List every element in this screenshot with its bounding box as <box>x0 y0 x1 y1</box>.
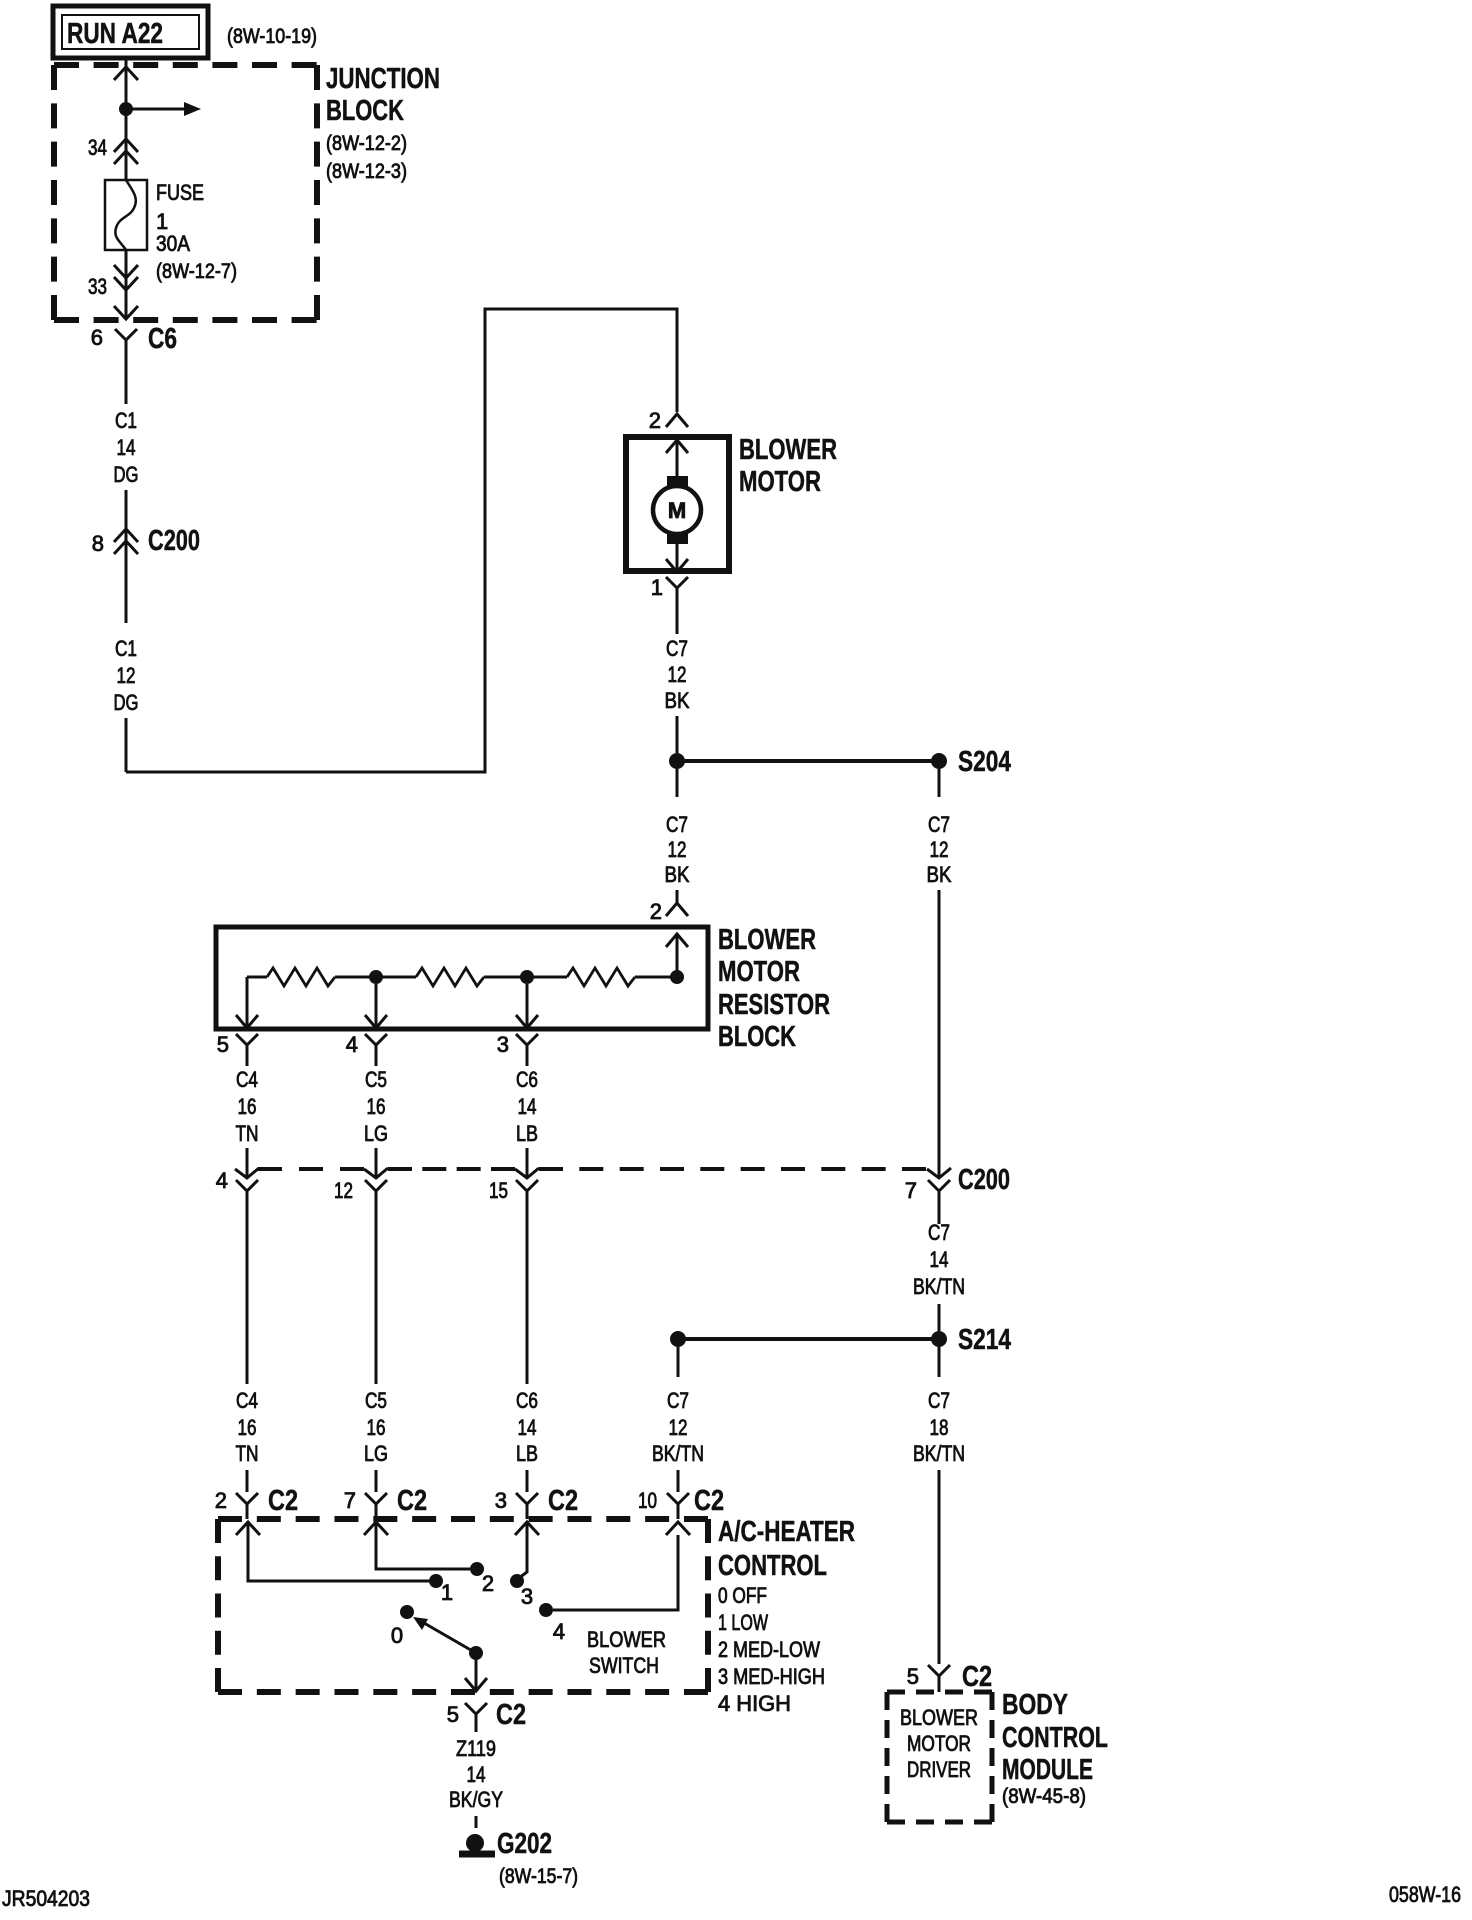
connector pin 33 <box>88 265 138 299</box>
svg-text:C7: C7 <box>667 1388 689 1413</box>
svg-text:7: 7 <box>344 1488 356 1513</box>
wire tap stubs and exit arrows <box>236 977 538 1028</box>
svg-text:4: 4 <box>553 1619 565 1644</box>
junction block dashed box <box>54 65 317 320</box>
svg-text:14: 14 <box>518 1094 537 1119</box>
wire switch position 2 from pin 7 <box>376 1522 470 1569</box>
svg-text:12: 12 <box>669 1415 688 1440</box>
wire RUN A22 feed into junction block <box>125 58 128 180</box>
svg-text:16: 16 <box>238 1094 257 1119</box>
connector C200 pin 7 <box>905 1164 1010 1203</box>
svg-text:(8W-12-2): (8W-12-2) <box>326 132 407 155</box>
svg-text:BK: BK <box>927 862 952 887</box>
wire switch position 3 from pin 3 <box>519 1522 527 1578</box>
node switch contact 4 <box>539 1603 553 1617</box>
svg-text:3 MED-HIGH: 3 MED-HIGH <box>718 1664 825 1689</box>
svg-text:18: 18 <box>930 1415 949 1440</box>
svg-text:12: 12 <box>668 662 687 687</box>
svg-text:2: 2 <box>650 899 662 924</box>
svg-text:C7: C7 <box>666 812 688 837</box>
svg-text:BK/TN: BK/TN <box>913 1274 965 1299</box>
connector C2 pin 3 <box>495 1485 578 1519</box>
wire loop to blower motor <box>126 309 677 772</box>
svg-text:BLOWER: BLOWER <box>718 924 816 956</box>
svg-text:3: 3 <box>497 1032 509 1057</box>
svg-text:DRIVER: DRIVER <box>907 1757 971 1782</box>
blower motor resistor block <box>216 927 708 1029</box>
node resistor feed <box>670 970 684 984</box>
node switch contact 2 <box>470 1562 484 1576</box>
label BLOWER MOTOR <box>739 434 837 498</box>
svg-text:JR504203: JR504203 <box>2 1886 90 1911</box>
svg-text:14: 14 <box>518 1415 537 1440</box>
svg-text:2: 2 <box>215 1488 227 1513</box>
svg-text:12: 12 <box>334 1178 353 1203</box>
connector resistor pin 4 <box>346 1032 387 1066</box>
svg-text:C2: C2 <box>548 1485 578 1517</box>
connector C2 pin 5 (BCM) <box>907 1661 992 1693</box>
svg-text:C4: C4 <box>236 1067 258 1092</box>
svg-text:C6: C6 <box>148 323 177 355</box>
svg-text:S204: S204 <box>958 746 1011 778</box>
svg-text:C6: C6 <box>516 1067 538 1092</box>
label blower motor driver <box>900 1705 978 1782</box>
connector C2 pin 7 <box>344 1485 427 1519</box>
svg-text:5: 5 <box>447 1702 459 1727</box>
wire fuse to junction block edge <box>125 250 128 318</box>
svg-text:CONTROL: CONTROL <box>1002 1722 1108 1754</box>
wire C5 16 LG lower <box>364 1388 388 1492</box>
svg-text:BLOCK: BLOCK <box>326 95 404 127</box>
svg-text:C200: C200 <box>958 1164 1010 1196</box>
svg-text:14: 14 <box>930 1247 949 1272</box>
connector blower motor pin 1 <box>651 575 688 606</box>
svg-text:3: 3 <box>495 1488 507 1513</box>
svg-text:8: 8 <box>92 531 104 556</box>
svg-text:34: 34 <box>88 135 107 160</box>
svg-text:16: 16 <box>238 1415 257 1440</box>
wire C1 12 DG <box>114 556 139 772</box>
svg-text:16: 16 <box>367 1094 386 1119</box>
connector resistor block pin 2 <box>650 899 688 924</box>
connector C2 pin 10 <box>638 1485 724 1519</box>
connector C6 pin 6 <box>91 323 177 356</box>
svg-text:DG: DG <box>114 462 139 487</box>
resistor med-high <box>567 968 635 986</box>
svg-text:LB: LB <box>516 1121 538 1146</box>
svg-text:C5: C5 <box>365 1067 387 1092</box>
svg-text:(8W-15-7): (8W-15-7) <box>499 1865 578 1888</box>
node switch contact 3 <box>510 1574 524 1588</box>
wire C4 16 TN <box>236 1067 259 1179</box>
connector C200 dashed harness line <box>258 1167 926 1171</box>
connector C200 pin 4 <box>216 1168 259 1193</box>
connector C200 pin 15 <box>489 1168 539 1203</box>
svg-text:6: 6 <box>91 325 103 350</box>
junction node <box>119 102 133 116</box>
svg-text:058W-16: 058W-16 <box>1389 1882 1461 1907</box>
svg-text:30A: 30A <box>156 231 190 256</box>
svg-text:DG: DG <box>114 690 139 715</box>
connector resistor pin 5 <box>217 1032 258 1066</box>
svg-text:C7: C7 <box>928 1220 950 1245</box>
wire C5 16 LG <box>364 1067 388 1179</box>
wire C7 12 BK (motor to S204) <box>665 606 690 753</box>
svg-text:5: 5 <box>907 1664 919 1689</box>
svg-text:16: 16 <box>367 1415 386 1440</box>
svg-text:BLOWER: BLOWER <box>739 434 837 466</box>
svg-text:SWITCH: SWITCH <box>589 1653 659 1678</box>
arrows into A/C control <box>236 1522 690 1535</box>
svg-text:7: 7 <box>905 1178 917 1203</box>
resistor med-low <box>416 968 484 986</box>
arrow out of junction block <box>114 306 138 319</box>
svg-text:(8W-10-19): (8W-10-19) <box>227 25 317 48</box>
svg-text:33: 33 <box>88 274 107 299</box>
svg-text:C7: C7 <box>928 1388 950 1413</box>
wires from C200 down to A/C control pins <box>247 1192 527 1384</box>
svg-text:JUNCTION: JUNCTION <box>326 63 440 95</box>
svg-text:C2: C2 <box>962 1661 992 1693</box>
svg-text:4 HIGH: 4 HIGH <box>718 1691 791 1716</box>
svg-text:5: 5 <box>217 1032 229 1057</box>
node resistor tap 3 <box>520 970 534 984</box>
svg-text:(8W-45-8): (8W-45-8) <box>1002 1785 1086 1808</box>
svg-text:14: 14 <box>467 1762 486 1787</box>
svg-text:C6: C6 <box>516 1388 538 1413</box>
svg-text:G202: G202 <box>497 1828 552 1860</box>
svg-text:LB: LB <box>516 1441 538 1466</box>
svg-text:0 OFF: 0 OFF <box>718 1583 767 1608</box>
label BODY CONTROL MODULE <box>1002 1689 1108 1808</box>
wire C7 12 BK (S204 to resistor block) <box>665 769 690 904</box>
wire C7 18 BK/TN (S214 to BCM) <box>913 1347 965 1664</box>
svg-text:BK/TN: BK/TN <box>913 1441 965 1466</box>
svg-text:MOTOR: MOTOR <box>907 1731 971 1756</box>
svg-text:RESISTOR: RESISTOR <box>718 989 830 1021</box>
svg-text:BLOWER: BLOWER <box>587 1627 666 1652</box>
wire Z119 14 BK/GY <box>449 1736 503 1828</box>
svg-text:C2: C2 <box>268 1485 298 1517</box>
connector C2 pin 5 (switch output) <box>447 1699 526 1732</box>
svg-text:C4: C4 <box>236 1388 258 1413</box>
ground G202 <box>459 1828 578 1888</box>
connector C200 pin 12 <box>334 1168 388 1203</box>
svg-text:15: 15 <box>489 1178 508 1203</box>
svg-text:(8W-12-7): (8W-12-7) <box>156 260 237 283</box>
svg-text:Z119: Z119 <box>456 1736 496 1761</box>
svg-text:LG: LG <box>364 1441 388 1466</box>
svg-text:2: 2 <box>482 1571 494 1596</box>
wire switch position 1 from pin 2 <box>248 1522 429 1581</box>
arrow to other circuits <box>126 102 201 116</box>
A/C-heater control dashed box <box>218 1519 708 1692</box>
wire switch position 4 to pin 10 <box>553 1535 678 1610</box>
svg-text:MOTOR: MOTOR <box>718 956 800 988</box>
svg-text:BLOWER: BLOWER <box>900 1705 978 1730</box>
junction block label <box>326 63 440 183</box>
wire wiper to pin 5 <box>475 1653 478 1690</box>
svg-text:4: 4 <box>346 1032 358 1057</box>
svg-text:14: 14 <box>117 435 136 460</box>
connector C2 pin 2 <box>215 1485 298 1519</box>
svg-text:TN: TN <box>236 1441 259 1466</box>
svg-text:2 MED-LOW: 2 MED-LOW <box>718 1637 820 1662</box>
node switch contact 1 <box>429 1574 443 1588</box>
wire C4 16 TN lower <box>236 1388 259 1492</box>
svg-text:CONTROL: CONTROL <box>718 1550 827 1582</box>
connector resistor pin 3 <box>497 1032 538 1066</box>
svg-text:C200: C200 <box>148 525 200 557</box>
feed box RUN A22 <box>53 6 208 58</box>
node resistor tap 4 <box>369 970 383 984</box>
svg-text:0: 0 <box>391 1623 403 1648</box>
svg-text:C2: C2 <box>397 1485 427 1517</box>
svg-text:S214: S214 <box>958 1324 1011 1356</box>
label BLOWER SWITCH <box>587 1627 666 1678</box>
svg-text:C5: C5 <box>365 1388 387 1413</box>
svg-text:BLOCK: BLOCK <box>718 1021 796 1053</box>
svg-text:BK/GY: BK/GY <box>449 1787 503 1812</box>
svg-text:BK: BK <box>665 862 690 887</box>
svg-text:C2: C2 <box>496 1699 526 1731</box>
wire C7 14 BK/TN (C200 to S214) <box>913 1192 965 1331</box>
svg-text:1: 1 <box>441 1580 453 1605</box>
svg-text:FUSE: FUSE <box>156 180 204 205</box>
blower motor <box>626 437 729 572</box>
connector pin 34 <box>88 135 138 164</box>
fuse 1 30A <box>105 180 237 283</box>
splice S214 <box>670 1324 1011 1356</box>
svg-text:12: 12 <box>117 663 136 688</box>
svg-text:BODY: BODY <box>1002 1689 1068 1721</box>
label BLOWER MOTOR RESISTOR BLOCK <box>718 924 830 1053</box>
svg-text:M: M <box>668 498 686 523</box>
resistor low <box>267 968 335 986</box>
wire C6 14 LB lower <box>516 1388 538 1492</box>
svg-text:12: 12 <box>930 837 949 862</box>
arrow into junction block <box>114 67 138 80</box>
svg-text:BK: BK <box>665 688 690 713</box>
svg-text:MODULE: MODULE <box>1002 1754 1093 1786</box>
splice S204 <box>669 746 1011 778</box>
svg-text:(8W-12-3): (8W-12-3) <box>326 160 407 183</box>
svg-text:C2: C2 <box>694 1485 724 1517</box>
svg-text:2: 2 <box>649 408 661 433</box>
connector C200 pin 8 <box>92 525 200 557</box>
svg-text:1: 1 <box>651 575 663 600</box>
svg-text:MOTOR: MOTOR <box>739 466 821 498</box>
label A/C-HEATER CONTROL <box>718 1516 855 1716</box>
wire C1 14 DG <box>114 356 139 527</box>
svg-text:LG: LG <box>364 1121 388 1146</box>
svg-text:RUN A22: RUN A22 <box>67 18 163 50</box>
svg-text:BK/TN: BK/TN <box>652 1441 704 1466</box>
svg-text:TN: TN <box>236 1121 259 1146</box>
svg-text:12: 12 <box>668 837 687 862</box>
svg-text:A/C-HEATER: A/C-HEATER <box>718 1516 855 1548</box>
svg-text:1 LOW: 1 LOW <box>718 1610 768 1635</box>
svg-text:10: 10 <box>638 1488 657 1513</box>
svg-text:C7: C7 <box>666 636 688 661</box>
svg-text:C7: C7 <box>928 812 950 837</box>
wire C7 12 BK (S204 to C200 pin 7) <box>927 769 952 1178</box>
wire C6 14 LB <box>516 1067 538 1179</box>
node switch contact 0 <box>400 1605 414 1619</box>
svg-text:3: 3 <box>521 1584 533 1609</box>
switch wiper arm <box>413 1617 483 1660</box>
connector blower motor pin 2 <box>649 408 688 433</box>
svg-text:C1: C1 <box>115 408 137 433</box>
body control module dashed box <box>887 1692 992 1822</box>
svg-text:4: 4 <box>216 1168 228 1193</box>
svg-text:C1: C1 <box>115 636 137 661</box>
arrow out of A/C control <box>465 1678 487 1691</box>
wire C7 12 BK/TN (S214 to A/C control) <box>652 1347 704 1492</box>
